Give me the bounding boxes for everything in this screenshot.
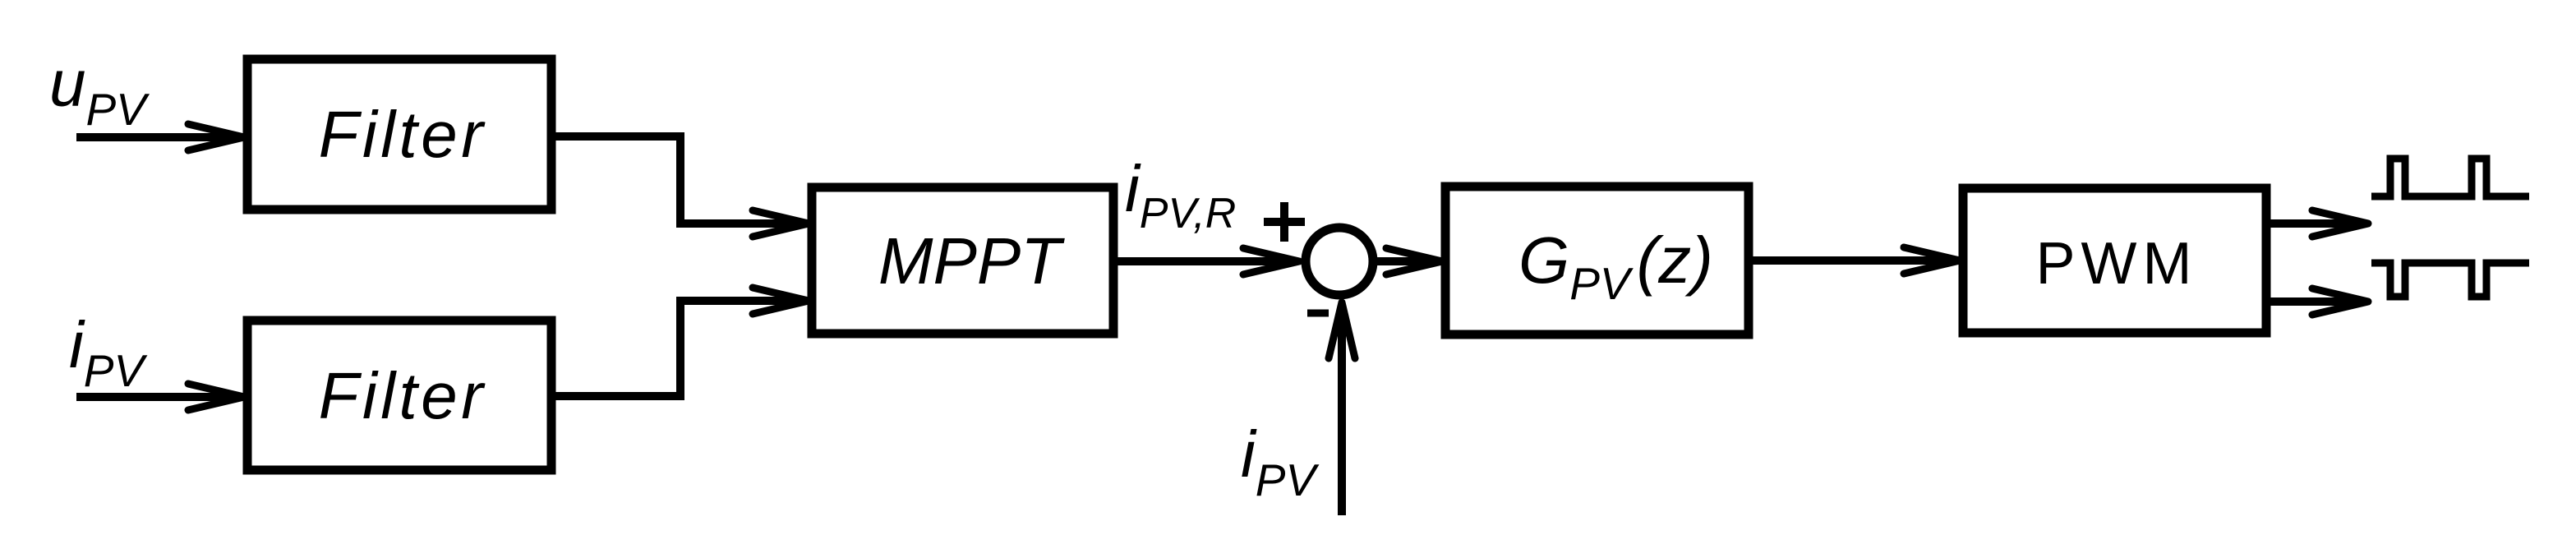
block Filter (lower)	[247, 321, 551, 470]
block G_PV(z)	[1445, 187, 1749, 334]
block MPPT	[812, 187, 1113, 334]
svg-text:PWM: PWM	[2036, 231, 2198, 297]
svg-text:Filter: Filter	[319, 98, 487, 171]
wire PWM output lower arrow	[2266, 297, 2365, 306]
pulse waveform upper	[2371, 159, 2529, 196]
plus sign	[1264, 202, 1305, 242]
wire G_PV(z) to PWM	[1749, 256, 1957, 265]
svg-text:MPPT: MPPT	[878, 224, 1065, 297]
wire Filter upper to MPPT	[551, 136, 804, 224]
wire i_PV input arrow	[76, 393, 243, 401]
wire summing junction to G_PV(z)	[1376, 257, 1440, 265]
svg-text:Filter: Filter	[319, 359, 487, 432]
pulse waveform lower	[2371, 263, 2529, 297]
block PWM	[1963, 188, 2266, 333]
wire Filter lower to MPPT	[551, 301, 804, 396]
wire PWM output upper arrow	[2266, 219, 2365, 228]
minus sign	[1307, 310, 1329, 317]
block Filter (upper)	[247, 59, 551, 210]
summing junction	[1306, 228, 1373, 295]
wire MPPT to summing junction	[1113, 257, 1297, 265]
wire i_PV feedback arrow (vertical)	[1338, 306, 1346, 515]
wire u_PV input arrow	[76, 133, 243, 141]
